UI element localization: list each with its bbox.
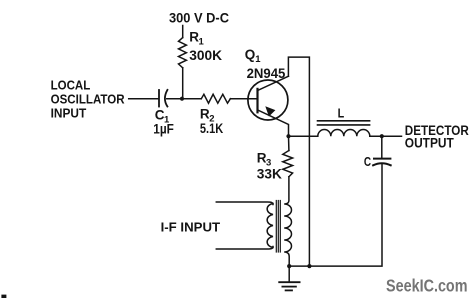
resistor R1 <box>179 38 187 68</box>
svg-text:L: L <box>338 105 345 120</box>
node junction dot C1/R1/R2 <box>180 97 184 101</box>
svg-text:2N945: 2N945 <box>247 66 286 81</box>
capacitor C1 <box>158 90 160 107</box>
svg-text:1: 1 <box>199 37 205 48</box>
svg-text:I-F INPUT: I-F INPUT <box>161 219 221 234</box>
transformer core <box>275 201 277 253</box>
inductor L <box>318 130 370 137</box>
wire emitter node to inductor <box>289 135 318 137</box>
ground <box>288 266 290 282</box>
transformer T1 primary <box>267 204 273 248</box>
node ground junction dot <box>287 264 291 268</box>
wire collector loop to ground rail <box>288 57 309 266</box>
svg-text:SeekIC.com: SeekIC.com <box>386 276 468 296</box>
node output junction dot <box>380 134 384 138</box>
svg-text:300K: 300K <box>189 48 222 63</box>
resistor R2 <box>201 94 230 103</box>
corner artifact <box>1 295 6 298</box>
wire inductor to output <box>370 135 402 137</box>
svg-text:OSCILLATOR: OSCILLATOR <box>51 91 126 106</box>
resistor R3 <box>288 136 290 150</box>
svg-text:1: 1 <box>255 54 261 65</box>
wire capacitor C down and left to ground rail <box>289 164 382 266</box>
wire supply to R1 top <box>182 26 184 38</box>
node rail junction dot <box>307 264 311 268</box>
capacitor C <box>374 158 390 160</box>
wire R1 bottom to junction <box>182 68 184 99</box>
svg-text:LOCAL: LOCAL <box>51 78 91 93</box>
svg-text:33K: 33K <box>257 167 282 182</box>
wire IF input top <box>216 202 273 205</box>
wire IF input bottom <box>216 247 273 250</box>
wire input to C1 <box>129 98 159 100</box>
transformer T1 secondary <box>284 177 291 266</box>
wire C1 to R2 <box>167 98 201 100</box>
svg-text:C: C <box>364 154 372 169</box>
svg-text:Q: Q <box>245 47 256 62</box>
svg-text:5.1K: 5.1K <box>200 121 223 136</box>
node emitter junction dot <box>286 134 290 138</box>
svg-text:300 V D-C: 300 V D-C <box>169 10 229 25</box>
wire output node down to capacitor C <box>381 136 383 158</box>
svg-text:OUTPUT: OUTPUT <box>405 135 455 150</box>
svg-text:INPUT: INPUT <box>51 106 87 121</box>
wire R2 to base <box>230 98 256 100</box>
transistor Q1 <box>248 80 288 120</box>
svg-text:1µF: 1µF <box>153 122 174 137</box>
